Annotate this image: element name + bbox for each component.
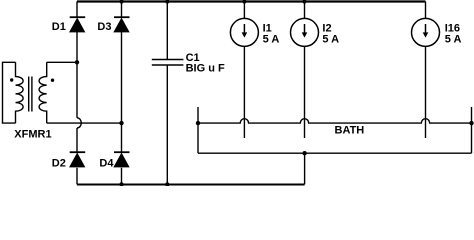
diode D3	[114, 17, 130, 32]
wire I16 drop from rail	[425, 2, 427, 19]
bath right wall	[471, 107, 473, 153]
wire bottom rail	[77, 184, 305, 186]
node dot C1 on bottom rail	[165, 182, 169, 186]
node B dot secondary bottom	[119, 121, 123, 125]
bath left wall	[197, 107, 199, 153]
svg-text:5 A: 5 A	[445, 34, 462, 46]
svg-text:D1: D1	[52, 21, 66, 33]
node dot bath bottom riser	[302, 151, 306, 155]
node dot D3 on top rail	[119, 0, 123, 4]
bath bottom	[198, 152, 472, 154]
secondary winding	[39, 62, 47, 123]
wire transformer secondary bottom to node B	[47, 122, 122, 124]
capacitor C1	[152, 60, 184, 66]
svg-text:XFMR1: XFMR1	[14, 129, 51, 141]
node dot I1 on top rail	[242, 0, 246, 4]
diode D1	[70, 17, 86, 32]
wire node B to D4 cathode	[121, 123, 123, 152]
node dot I2 on top rail	[302, 0, 306, 4]
svg-text:BIG u F: BIG u F	[186, 62, 225, 74]
wire I16 bottom lead dipping into bath	[425, 46, 427, 138]
wire D1 top lead	[76, 2, 78, 18]
svg-text:D4: D4	[99, 158, 114, 170]
wire C1 bottom lead	[166, 65, 168, 184]
transformer XFMR1	[16, 62, 47, 123]
phase dot primary	[10, 78, 13, 81]
wire I1 top lead	[243, 2, 245, 19]
wire I2 bottom lead dipping into bath	[304, 46, 306, 138]
wire I2 top lead	[304, 2, 306, 19]
wire D1 anode to node A	[76, 32, 78, 118]
svg-text:5 A: 5 A	[322, 34, 339, 46]
primary winding	[16, 62, 24, 123]
bath liquid surface with hops over electrodes	[198, 119, 472, 123]
wire transformer secondary top to node A	[47, 61, 77, 63]
diode D2	[70, 152, 86, 167]
wire node to D2 cathode	[76, 128, 78, 152]
wire bath return riser to bottom rail	[304, 153, 306, 184]
core bar left	[28, 77, 30, 112]
current source I1	[230, 18, 258, 46]
wire top rail	[77, 0, 426, 2]
wire D2 anode to bottom rail corner	[76, 168, 78, 185]
node dot D4 on bottom rail	[119, 182, 123, 186]
wire D3 top lead	[121, 2, 123, 18]
node dot C1 on top rail	[165, 0, 169, 4]
node A dot secondary top	[75, 60, 79, 64]
current source I2	[291, 18, 319, 46]
svg-text:5 A: 5 A	[263, 34, 280, 46]
svg-text:D3: D3	[97, 21, 111, 33]
wire transformer primary loop	[3, 62, 16, 123]
svg-text:D2: D2	[52, 158, 66, 170]
wire hop of D1-D2 branch over transformer bottom wire	[77, 118, 81, 128]
phase dot secondary	[51, 79, 54, 82]
current source I16	[412, 18, 440, 46]
wire I1 bottom lead dipping into bath	[243, 46, 245, 138]
diode D4	[114, 152, 130, 167]
bath tank	[198, 107, 472, 153]
wire D4 anode to bottom rail	[121, 168, 123, 185]
node dot bath right wall	[469, 121, 473, 125]
node dot bath left wall	[196, 121, 200, 125]
wire D3 anode to node B	[121, 32, 123, 123]
svg-text:BATH: BATH	[335, 125, 365, 137]
core bar right	[31, 77, 33, 112]
wire C1 top lead	[166, 2, 168, 60]
